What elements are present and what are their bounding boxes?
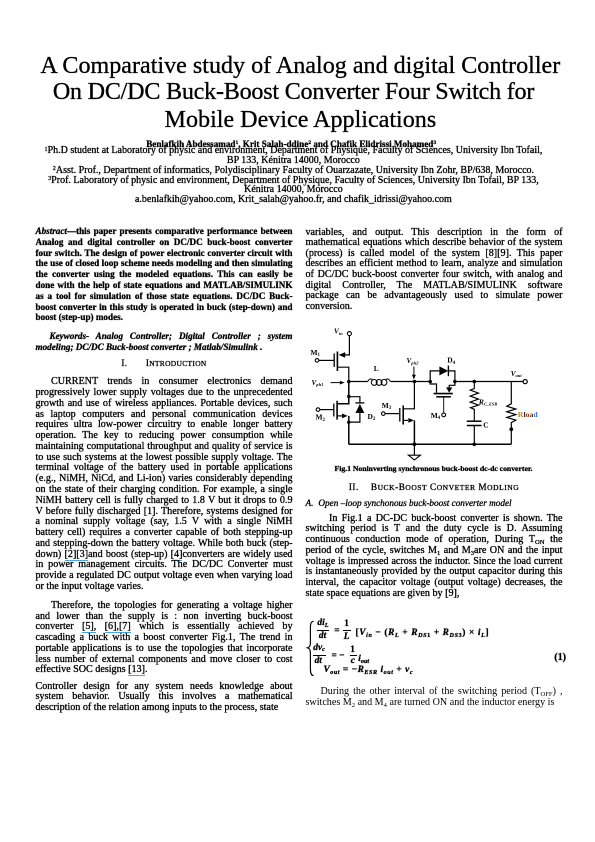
node Vph1 [347,380,351,384]
svg-text:Vph2: Vph2 [407,357,420,365]
label D2 [368,412,376,422]
Affiliations [0,146,591,205]
svg-text:M3: M3 [382,401,392,411]
node D4 right [453,380,457,384]
figure caption [305,464,562,473]
wire Vph1 to inductor [349,381,368,383]
Title line 3 [3,107,595,133]
M2 source arrow [342,414,348,419]
LEFT COLUMN [36,226,293,323]
label M3 [382,401,392,411]
equation brace [308,621,314,675]
inductor L [368,379,373,382]
arrow Vph1 [331,382,342,384]
eq row 1 fraction 1/L [344,619,349,630]
svg-text:Vout: Vout [511,370,523,378]
label M1 [311,348,321,358]
transistor M4 [430,382,436,393]
Title line 2 [0,79,591,105]
wire inductor to D4 node [390,381,430,383]
label Vin [334,328,343,336]
node Rload bottom [509,427,513,431]
svg-text:Rload: Rload [518,410,539,419]
eq row 3 Vout [321,665,413,676]
wire Vph1 node down to M2 drain [338,382,349,404]
M3 source arrow [408,418,414,423]
node capacitor bottom [473,443,477,447]
eq row 2 fraction 1/c [350,645,355,656]
label R_C_ESR [478,397,498,406]
bottom rail [349,443,512,445]
label M4 [431,411,441,421]
equation number (1) [554,653,566,664]
output rail [455,381,523,383]
transistor M1 [336,352,338,372]
svg-text:M4: M4 [431,411,441,421]
transistor M2 [336,401,338,420]
label Vph1 [312,379,324,387]
node Vout terminal [523,380,527,384]
svg-text:C: C [483,420,488,429]
Authors [0,139,589,149]
transistor M3 [402,406,404,425]
label Vout [511,370,523,378]
svg-text:D4: D4 [447,356,455,366]
label Rload [518,410,539,419]
svg-text:RC_ESR: RC_ESR [478,397,498,406]
M1 drain arrow [339,352,346,358]
label D4 [447,356,455,366]
svg-text:M1: M1 [311,348,321,358]
node M2 source [347,421,350,424]
node RC branch [473,380,477,384]
eq row 1 bracket expression [356,628,490,639]
ground [413,444,415,455]
svg-text:Vph1: Vph1 [312,379,324,387]
label L [374,364,379,373]
label C [483,420,488,429]
resistor Rload [507,382,516,445]
svg-text:Vin: Vin [334,328,343,336]
subsection A [306,498,563,508]
node D4 left [428,380,432,384]
label M2 [316,413,326,423]
node D2 branch [347,395,350,398]
wire to diode D4 [430,371,439,382]
svg-text:L: L [374,364,379,373]
node Vph2 [413,380,417,384]
EQUATION (1) [300,612,580,687]
arrow Vph2 [413,367,415,377]
capacitor C [467,420,482,422]
wire Vph2 to M3 drain [404,382,414,409]
eq row 2 fraction dvc/dt [313,643,325,654]
diode D4 [439,366,448,375]
svg-text:M2: M2 [316,413,326,423]
M4 drain arrow [446,387,452,392]
FIGURE: circuit schematic [300,325,570,465]
resistor R_C_ESR [470,382,478,421]
label Vph2 [407,357,420,365]
wire Vin to M1 drain [344,336,350,355]
node Vin terminal [347,332,351,336]
ground node [413,442,417,446]
heading II [306,482,563,492]
diode D2 [349,397,360,403]
svg-text:D2: D2 [368,412,376,422]
RIGHT COLUMN [306,228,563,313]
Title line 1 [3,53,595,79]
eq row 1 fraction diL/dt [317,618,328,629]
